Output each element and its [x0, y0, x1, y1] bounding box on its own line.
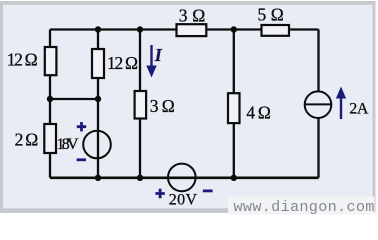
svg-text:20V: 20V — [169, 191, 198, 208]
svg-text:3 Ω: 3 Ω — [179, 5, 206, 25]
svg-text:18V: 18V — [57, 136, 79, 153]
svg-text:2 Ω: 2 Ω — [15, 129, 39, 149]
svg-text:4 Ω: 4 Ω — [246, 103, 271, 123]
svg-text:5 Ω: 5 Ω — [258, 5, 284, 25]
svg-text:2A: 2A — [349, 101, 369, 118]
svg-text:12 Ω: 12 Ω — [7, 50, 38, 70]
svg-text:12 Ω: 12 Ω — [107, 53, 138, 73]
svg-text:I: I — [154, 45, 163, 65]
svg-text:3 Ω: 3 Ω — [150, 96, 175, 116]
svg-text:www.diangon.com: www.diangon.com — [234, 198, 375, 216]
